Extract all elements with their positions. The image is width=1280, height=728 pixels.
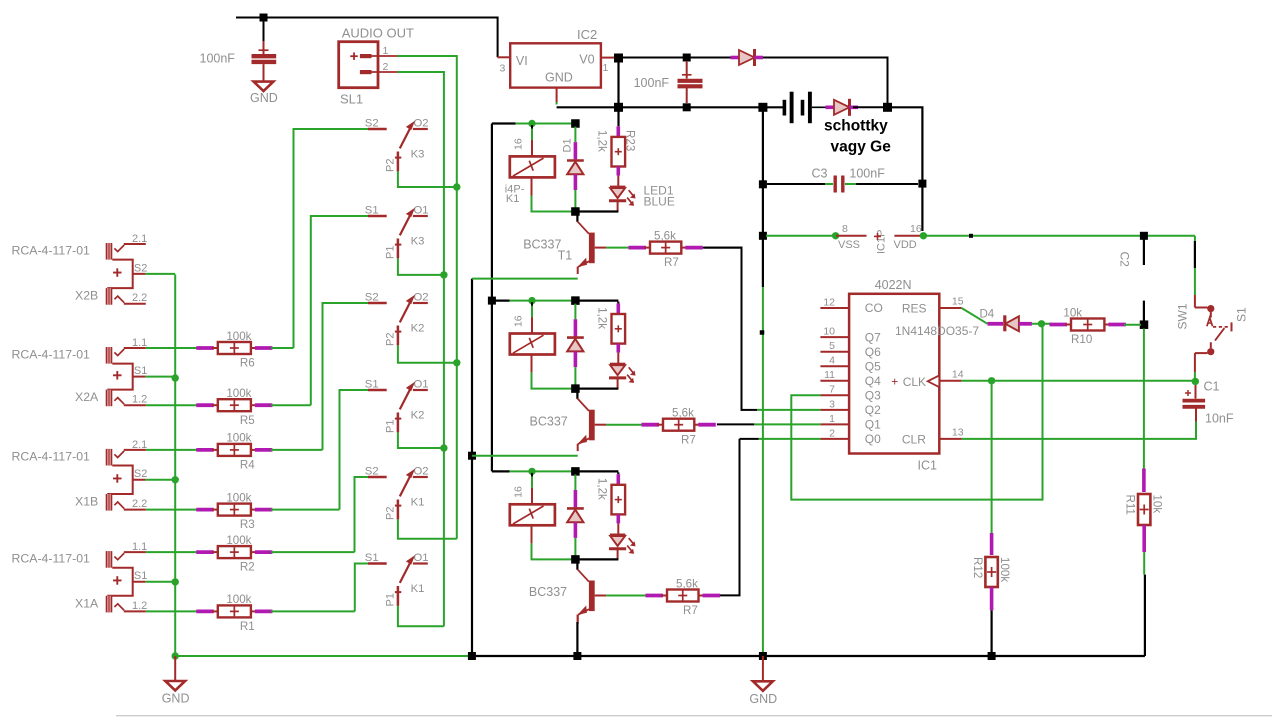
svg-text:VI: VI	[516, 54, 528, 68]
svg-text:RCA-4-117-01: RCA-4-117-01	[12, 244, 91, 258]
svg-text:P2: P2	[385, 159, 397, 172]
wire gnd vertical x762 upper	[762, 111, 764, 232]
svg-text:R4: R4	[240, 459, 255, 472]
wire S input	[294, 129, 369, 348]
resistor R3 value 100k	[196, 491, 272, 531]
svg-text:100k: 100k	[998, 557, 1011, 582]
junction small tick x762	[760, 330, 765, 335]
svg-text:5,6k: 5,6k	[672, 407, 694, 420]
switch S1 SW1 pushbutton	[1176, 295, 1249, 372]
svg-text:RCA-4-117-01: RCA-4-117-01	[12, 450, 91, 464]
svg-text:AUDIO OUT: AUDIO OUT	[342, 26, 414, 41]
resistor R4 value 100k	[196, 432, 272, 472]
svg-text:K3: K3	[411, 236, 425, 248]
svg-text:X2B: X2B	[75, 289, 98, 303]
svg-text:O1: O1	[414, 552, 429, 564]
wire R7a to Q2 corner	[703, 247, 743, 249]
resistor 1,2k block1	[595, 126, 636, 186]
svg-text:D1: D1	[562, 138, 574, 152]
resistor R7 value 5,6k	[642, 407, 716, 447]
svg-text:5: 5	[829, 340, 835, 352]
resistor R5 value 100k	[196, 387, 272, 427]
junction node	[440, 271, 447, 278]
IC IC1 4022N body	[849, 278, 939, 473]
junction x887	[883, 103, 892, 112]
svg-text:X1B: X1B	[75, 495, 98, 509]
svg-text:R23: R23	[624, 130, 637, 151]
svg-text:RES: RES	[902, 302, 927, 316]
svg-text:R7: R7	[681, 433, 696, 446]
resistor R7 value 5,6k	[629, 229, 703, 269]
svg-text:100k: 100k	[226, 593, 251, 606]
svg-text:R5: R5	[240, 414, 255, 427]
svg-text:T1: T1	[558, 249, 573, 263]
wire Q0 to R7c	[717, 439, 821, 596]
svg-text:vagy Ge: vagy Ge	[831, 139, 892, 156]
svg-text:2: 2	[383, 61, 389, 73]
switch contact K2 S1-O1	[365, 378, 429, 433]
battery B1	[784, 92, 828, 124]
diode flyback block3	[567, 474, 584, 556]
svg-text:BC337: BC337	[530, 414, 568, 428]
node sleeve X1A	[172, 578, 179, 585]
pin 2 Q0 of IC1	[820, 427, 881, 446]
svg-text:VDD: VDD	[894, 239, 917, 251]
svg-text:S1: S1	[1235, 307, 1249, 322]
wire Q3 routing loop to RES node	[791, 324, 1042, 500]
svg-text:S1: S1	[365, 204, 379, 216]
wire relay rail block1	[492, 122, 576, 124]
svg-text:C1: C1	[1204, 380, 1220, 394]
pin 1 V0 of IC2	[601, 58, 614, 74]
wire ground bus green	[175, 655, 472, 657]
LED block2	[609, 364, 635, 389]
svg-text:4: 4	[829, 355, 835, 367]
svg-text:2.2: 2.2	[132, 498, 147, 510]
ground GND bottom-middle	[749, 656, 777, 706]
node VSS pin 8 of IC1	[832, 223, 867, 251]
connector SL1 AUDIO OUT	[339, 26, 414, 107]
wire input to R1	[146, 610, 198, 612]
svg-text:R11: R11	[1124, 495, 1137, 515]
junction D bottom block1	[571, 207, 580, 216]
pin 11 Q4 of IC1	[820, 369, 881, 388]
node coil pin16 block1	[528, 120, 535, 127]
svg-text:15: 15	[952, 296, 964, 308]
svg-text:2.1: 2.1	[132, 233, 147, 245]
resistor R10 value 10k	[1050, 306, 1126, 346]
svg-text:10k: 10k	[1151, 495, 1164, 514]
wire to C3 right rail	[888, 107, 923, 231]
pin 1 Q1 of IC1	[820, 413, 881, 432]
node coil pin16 block3	[528, 468, 535, 475]
svg-text:R1: R1	[240, 620, 255, 633]
svg-text:K2: K2	[411, 410, 425, 422]
svg-text:16: 16	[513, 486, 525, 498]
switch contact K1 S1-O1	[365, 552, 429, 607]
resistor R2 value 100k	[196, 534, 272, 574]
svg-text:+: +	[891, 374, 898, 388]
node sleeve X2A	[172, 374, 179, 381]
wire VDD rail to switch column	[923, 235, 1195, 237]
pin GND of IC2	[556, 88, 558, 105]
svg-text:GND: GND	[545, 71, 573, 85]
wire CLK net	[962, 380, 1195, 382]
junction D top block1	[571, 119, 580, 128]
wire R5 to switch	[271, 404, 311, 406]
wire coil bottom block3	[532, 543, 576, 559]
frame line bottom	[116, 715, 1272, 717]
svg-text:1: 1	[829, 413, 835, 425]
svg-text:5,6k: 5,6k	[676, 577, 698, 590]
wire net P-odd from SL1 pin2	[398, 72, 444, 626]
svg-text:IC2: IC2	[577, 27, 597, 42]
wire input to R3	[146, 509, 198, 511]
svg-text:Q1: Q1	[865, 418, 881, 432]
svg-text:1.2: 1.2	[132, 394, 147, 406]
svg-text:1.2: 1.2	[132, 600, 147, 612]
svg-text:4022N: 4022N	[875, 278, 912, 292]
svg-text:P2: P2	[385, 507, 397, 520]
svg-text:8: 8	[842, 223, 848, 235]
junction x491 block2 tap	[488, 297, 496, 305]
svg-text:RCA-4-117-01: RCA-4-117-01	[12, 348, 91, 362]
wire P2 K2 to net	[398, 345, 457, 362]
pin 3 VI of IC2	[498, 57, 511, 74]
svg-text:3: 3	[500, 63, 506, 75]
node coil pin16 block2	[528, 297, 535, 304]
wire D-LED bottom rail block1	[575, 210, 618, 212]
wire base chain block1	[606, 247, 630, 249]
wire schottky to VDD corner	[853, 106, 888, 108]
junction gnd rail x762	[759, 232, 767, 240]
wire S input	[323, 303, 369, 450]
wire V0 down to bus	[617, 62, 619, 126]
wire emitter block1	[472, 278, 578, 280]
wire S input	[311, 216, 368, 405]
svg-text:P2: P2	[385, 333, 397, 346]
svg-text:SL1: SL1	[340, 91, 363, 106]
svg-text:R7: R7	[664, 256, 679, 269]
svg-text:C2: C2	[1118, 252, 1132, 268]
svg-text:13: 13	[952, 426, 964, 438]
svg-text:100nF: 100nF	[200, 52, 236, 66]
svg-text:R6: R6	[240, 357, 255, 370]
resistor R7 value 5,6k	[646, 577, 721, 617]
capacitor 100nF top-left	[200, 18, 277, 82]
svg-text:K1: K1	[411, 583, 425, 595]
pin 12 CO of IC1	[820, 296, 882, 315]
junction D top block2	[571, 296, 580, 305]
switch contact K3 S1-O1	[365, 204, 429, 259]
svg-text:S2: S2	[365, 465, 379, 477]
junction bus x577	[573, 652, 581, 660]
wire R10 to C2 node	[1124, 324, 1141, 326]
svg-text:1.1: 1.1	[132, 337, 147, 349]
svg-text:CLR: CLR	[902, 433, 926, 447]
LED block3	[609, 535, 635, 560]
svg-text:X2A: X2A	[75, 390, 99, 404]
svg-text:S2: S2	[365, 117, 379, 129]
wire emitter block3 to bus	[576, 622, 578, 656]
svg-text:O1: O1	[414, 204, 429, 216]
relay coil block2	[510, 302, 555, 373]
svg-text:VSS: VSS	[838, 239, 860, 251]
junction node	[453, 183, 460, 190]
wire relay rail block3	[492, 470, 619, 472]
diode D4 1N4148DO35-7	[895, 309, 1032, 338]
svg-text:GND: GND	[162, 692, 190, 706]
switch contact K2 S2-O2	[365, 291, 429, 346]
wire P1 K2 to net	[398, 432, 444, 448]
pin 13 CLR of IC1	[902, 426, 964, 446]
wire sleeve ground vertical	[174, 275, 176, 657]
wire base chain block3	[606, 595, 647, 597]
junction node	[453, 359, 460, 366]
pin 3 Q2 of IC1	[820, 398, 881, 417]
connector X2B RCA-4-117-01	[12, 233, 176, 305]
transistor BC337 block3	[529, 559, 606, 622]
svg-text:O2: O2	[414, 465, 429, 477]
svg-text:S2: S2	[134, 468, 147, 480]
relay coil block1	[510, 125, 555, 196]
wire D-LED bottom rail block2	[575, 388, 618, 390]
svg-text:Q4: Q4	[865, 374, 881, 388]
svg-text:R2: R2	[240, 561, 255, 574]
svg-text:BC337: BC337	[529, 585, 567, 599]
ground GND bottom-left	[162, 656, 190, 706]
svg-text:7: 7	[829, 384, 835, 396]
svg-text:P1: P1	[385, 420, 397, 433]
svg-text:R7: R7	[683, 604, 698, 617]
svg-text:CLK: CLK	[903, 375, 926, 389]
wire GND-of-IC2 bus y107	[557, 106, 783, 108]
svg-text:S1: S1	[134, 365, 147, 377]
svg-text:3: 3	[829, 398, 835, 410]
transistor BC337 block2	[530, 389, 607, 452]
label i4P- K1	[505, 183, 525, 205]
wire CLR net to C1	[962, 422, 1196, 439]
junction small x971	[969, 234, 973, 238]
svg-text:CO: CO	[865, 301, 883, 315]
resistor 1,2k block3	[595, 472, 625, 533]
junction V0 node	[614, 54, 623, 63]
svg-text:SW1: SW1	[1176, 303, 1190, 329]
svg-text:1,2k: 1,2k	[595, 130, 608, 152]
wire input to R4	[146, 449, 198, 451]
svg-text:Q2: Q2	[865, 403, 881, 417]
svg-text:P1: P1	[385, 246, 397, 259]
junction bus x762 gnd drop	[758, 103, 767, 112]
resistor R1 value 100k	[196, 593, 272, 633]
svg-text:Q6: Q6	[865, 345, 881, 359]
svg-text:K2: K2	[411, 323, 425, 335]
svg-text:Q7: Q7	[865, 330, 881, 344]
svg-text:schottky: schottky	[824, 118, 888, 135]
resistor R6 value 100k	[196, 330, 272, 370]
LED block1	[609, 184, 675, 212]
svg-text:O2: O2	[414, 117, 429, 129]
pin 5 Q6 of IC1	[820, 340, 881, 359]
svg-text:1: 1	[603, 62, 609, 74]
svg-text:K1: K1	[506, 193, 519, 205]
wire R6 to switch	[271, 347, 294, 349]
junction bus x618	[614, 103, 623, 112]
wire S input	[340, 390, 369, 510]
svg-text:14: 14	[952, 369, 964, 381]
wire emitter lead block3	[577, 615, 579, 625]
capacitor C1 10nF	[1183, 380, 1234, 426]
svg-text:S1: S1	[134, 570, 147, 582]
voltage regulator IC2	[510, 27, 601, 88]
svg-text:R3: R3	[240, 518, 255, 531]
wire VDD rail corner down to S1	[1194, 236, 1196, 295]
svg-text:S2: S2	[365, 291, 379, 303]
diode D3 schottky	[824, 99, 891, 156]
junction bus x471	[468, 652, 476, 660]
wire Q1 to R7b	[717, 423, 821, 425]
junction bus x991	[988, 652, 996, 660]
pin 1 of SL1	[372, 45, 398, 57]
capacitor C2 (body blank)	[1118, 239, 1144, 321]
switch contact K1 S2-O2	[365, 465, 429, 520]
junction C3 left	[759, 180, 767, 188]
svg-text:BC337: BC337	[523, 237, 561, 251]
wire top feed to IC2 VI	[236, 18, 498, 58]
diode flyback block2	[567, 304, 584, 386]
wire P1 K1 to net end	[398, 606, 444, 626]
svg-text:1,2k: 1,2k	[595, 478, 608, 500]
wire coil bottom block2	[532, 373, 576, 389]
wire net P-even from SL1 pin1	[398, 56, 457, 539]
svg-text:K1: K1	[411, 497, 425, 509]
junction cap2 top	[683, 54, 691, 62]
diode D2 top rail	[731, 49, 764, 66]
wire gnd vertical x762 lower	[762, 239, 764, 652]
relay coil block3	[510, 473, 555, 544]
svg-text:100k: 100k	[226, 387, 251, 400]
wire relay rail block2	[492, 300, 619, 302]
power part IC1P	[874, 230, 888, 254]
wire coil bottom block1	[532, 196, 576, 212]
wire emitter collector vertical x472	[471, 279, 473, 656]
junction top-left cap	[260, 14, 268, 22]
wire P2 K1 to net end	[398, 519, 457, 538]
wire R12 string vertical	[991, 381, 993, 555]
svg-text:100k: 100k	[226, 432, 251, 445]
ground GND top-left	[250, 82, 278, 106]
svg-text:1N4148DO35-7: 1N4148DO35-7	[895, 324, 979, 338]
wire ground bus black	[472, 655, 1145, 657]
svg-text:100k: 100k	[226, 491, 251, 504]
node RES loop junction	[1038, 320, 1045, 327]
wire S1 lower to CLK node	[1194, 372, 1196, 381]
svg-text:GND: GND	[250, 91, 278, 105]
svg-text:C3: C3	[812, 166, 828, 180]
junction D bottom block2	[571, 384, 580, 393]
wire R11 string vertical	[1143, 329, 1145, 493]
node sleeve X1B	[172, 476, 179, 483]
wire S input	[355, 564, 368, 612]
pin 14 CLK of IC1	[891, 369, 963, 390]
svg-text:10nF: 10nF	[1205, 412, 1234, 426]
junction x472 block2 emitter	[468, 452, 476, 460]
wire input to R5	[146, 404, 198, 406]
svg-text:100k: 100k	[226, 330, 251, 343]
svg-text:2.2: 2.2	[132, 292, 147, 304]
wire D4 to R10	[1032, 323, 1052, 325]
svg-text:D4: D4	[980, 309, 995, 321]
svg-text:Q0: Q0	[865, 432, 881, 446]
svg-text:10k: 10k	[1063, 306, 1082, 319]
pin 7 Q3 of IC1	[820, 384, 881, 403]
junction node	[440, 444, 447, 451]
pin 15 RES of IC1	[902, 296, 964, 316]
wire VSS rail	[766, 235, 836, 237]
svg-text:10: 10	[823, 326, 835, 338]
svg-text:2: 2	[829, 427, 835, 439]
junction cap2 bottom	[683, 103, 691, 111]
wire emitter block2	[472, 455, 578, 457]
svg-text:V0: V0	[579, 53, 594, 67]
svg-text:GND: GND	[749, 692, 777, 706]
svg-text:X1A: X1A	[75, 596, 99, 610]
wire V0 top rail to right corner	[623, 58, 888, 104]
resistor R11 value 10k	[1124, 494, 1164, 525]
svg-text:RCA-4-117-01: RCA-4-117-01	[12, 552, 91, 566]
wire R11 bottom to bus	[1142, 525, 1146, 656]
connector X1A RCA-4-117-01	[12, 541, 176, 612]
svg-text:R12: R12	[971, 557, 984, 578]
wire P1 K3 to net	[398, 258, 444, 275]
wire R2 to switch	[271, 551, 355, 553]
svg-text:16: 16	[513, 315, 525, 327]
svg-text:1,2k: 1,2k	[595, 307, 608, 329]
capacitor 100nF mid	[634, 61, 703, 103]
junction C2 bottom / R10 node	[1140, 320, 1149, 329]
node VDD pin 16 of IC1	[894, 223, 928, 251]
wire R4 to switch	[271, 449, 323, 451]
resistor 1,2k block2	[595, 302, 625, 363]
pin 4 Q5 of IC1	[820, 355, 881, 374]
svg-text:Q3: Q3	[865, 389, 881, 403]
wire RES diagonal	[962, 308, 988, 324]
junction D bottom block3	[571, 555, 580, 564]
transistor BC337 block1	[523, 212, 606, 275]
svg-text:2.1: 2.1	[132, 439, 147, 451]
pin 2 of SL1	[372, 61, 398, 73]
diode flyback block1	[562, 127, 584, 209]
wire base chain block2	[606, 424, 643, 426]
svg-text:IC1: IC1	[918, 459, 938, 473]
svg-text:O1: O1	[414, 378, 429, 390]
svg-text:5,6k: 5,6k	[654, 229, 676, 242]
svg-text:O2: O2	[414, 291, 429, 303]
svg-text:Q5: Q5	[865, 359, 881, 373]
wire R3 to switch	[271, 509, 340, 511]
wire Q2 to R7a	[704, 248, 820, 411]
svg-text:S1: S1	[365, 552, 379, 564]
wire input to R2	[146, 551, 198, 553]
connector X1B RCA-4-117-01	[12, 439, 176, 511]
wire D-LED bottom rail block3	[575, 558, 618, 560]
junction D top block3	[571, 467, 580, 476]
wire left rail vertical x491	[491, 124, 493, 472]
svg-text:11: 11	[824, 369, 835, 381]
svg-text:S1: S1	[365, 378, 379, 390]
capacitor C3 100nF	[767, 166, 918, 192]
svg-text:16: 16	[513, 138, 525, 150]
